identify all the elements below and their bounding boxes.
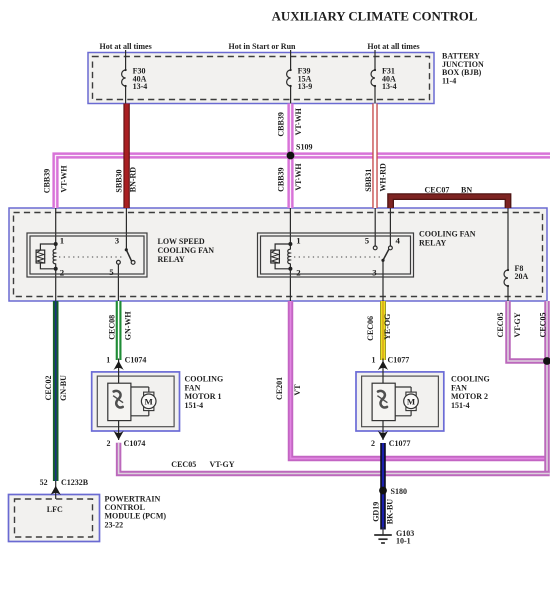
svg-text:2: 2 xyxy=(107,439,111,448)
svg-text:WH-RD: WH-RD xyxy=(379,163,388,192)
svg-text:5: 5 xyxy=(109,267,114,277)
svg-text:Hot at all times: Hot at all times xyxy=(367,42,419,51)
svg-text:AUXILIARY CLIMATE CONTROL: AUXILIARY CLIMATE CONTROL xyxy=(272,10,478,24)
svg-text:CEC08: CEC08 xyxy=(108,315,117,340)
svg-text:YE-OG: YE-OG xyxy=(383,314,392,340)
svg-text:CEC05: CEC05 xyxy=(538,313,547,338)
svg-text:CBB39: CBB39 xyxy=(277,112,286,136)
svg-text:4: 4 xyxy=(395,235,400,245)
svg-text:COOLING FAN: COOLING FAN xyxy=(419,230,476,239)
svg-text:COOLING: COOLING xyxy=(185,374,224,383)
svg-text:151-4: 151-4 xyxy=(185,401,204,410)
svg-text:FAN: FAN xyxy=(185,383,201,392)
svg-text:SBB31: SBB31 xyxy=(364,169,373,192)
svg-text:CONTROL: CONTROL xyxy=(105,503,145,512)
svg-text:151-4: 151-4 xyxy=(451,401,470,410)
svg-text:RELAY: RELAY xyxy=(419,239,446,248)
svg-text:Hot at all times: Hot at all times xyxy=(99,42,151,51)
svg-text:1: 1 xyxy=(372,356,376,365)
svg-text:LOW SPEED: LOW SPEED xyxy=(158,237,205,246)
svg-text:M: M xyxy=(407,397,416,407)
svg-text:VT-WH: VT-WH xyxy=(294,107,303,135)
svg-text:RELAY: RELAY xyxy=(158,255,185,264)
svg-text:10-1: 10-1 xyxy=(396,537,411,546)
svg-text:2: 2 xyxy=(296,268,301,278)
svg-text:GN-BU: GN-BU xyxy=(59,375,68,401)
svg-text:CEC07: CEC07 xyxy=(425,185,450,194)
svg-text:GD19: GD19 xyxy=(371,502,380,522)
svg-text:CE201: CE201 xyxy=(275,377,284,400)
svg-text:23-22: 23-22 xyxy=(105,520,124,529)
svg-text:13-9: 13-9 xyxy=(298,82,313,91)
svg-text:C1232B: C1232B xyxy=(61,478,89,487)
svg-text:52: 52 xyxy=(40,478,48,487)
svg-text:LFC: LFC xyxy=(47,505,63,514)
svg-text:CEC06: CEC06 xyxy=(366,316,375,341)
svg-text:3: 3 xyxy=(115,235,120,245)
svg-text:MOTOR 1: MOTOR 1 xyxy=(185,392,222,401)
svg-text:MOTOR 2: MOTOR 2 xyxy=(451,392,488,401)
svg-text:S180: S180 xyxy=(391,487,407,496)
svg-text:C1077: C1077 xyxy=(389,439,411,448)
svg-text:COOLING: COOLING xyxy=(451,374,490,383)
svg-text:VT: VT xyxy=(293,384,302,396)
svg-text:MODULE (PCM): MODULE (PCM) xyxy=(105,512,167,521)
svg-text:2: 2 xyxy=(371,439,375,448)
svg-text:VT-GY: VT-GY xyxy=(513,312,522,337)
svg-text:GN-WH: GN-WH xyxy=(124,311,133,341)
svg-text:POWERTRAIN: POWERTRAIN xyxy=(105,494,161,503)
svg-text:CBB39: CBB39 xyxy=(277,167,286,191)
svg-text:CEC02: CEC02 xyxy=(44,376,53,401)
svg-text:5: 5 xyxy=(365,235,370,245)
svg-text:C1074: C1074 xyxy=(124,439,146,448)
svg-text:VT-WH: VT-WH xyxy=(60,165,69,193)
svg-text:VT-WH: VT-WH xyxy=(294,163,303,191)
svg-text:20A: 20A xyxy=(515,272,529,281)
svg-text:Hot in Start or Run: Hot in Start or Run xyxy=(229,42,297,51)
svg-text:BN: BN xyxy=(461,185,472,194)
svg-text:CEC05: CEC05 xyxy=(496,313,505,338)
svg-text:BN-RD: BN-RD xyxy=(128,167,137,193)
svg-text:VT-GY: VT-GY xyxy=(210,460,235,469)
svg-text:FAN: FAN xyxy=(451,383,467,392)
svg-text:2: 2 xyxy=(60,268,65,278)
svg-text:3: 3 xyxy=(372,268,377,278)
svg-text:COOLING FAN: COOLING FAN xyxy=(158,246,215,255)
svg-text:1: 1 xyxy=(296,235,300,245)
svg-text:M: M xyxy=(145,397,154,407)
svg-text:S109: S109 xyxy=(296,143,312,152)
svg-text:13-4: 13-4 xyxy=(382,82,397,91)
svg-text:BK-BU: BK-BU xyxy=(386,499,395,525)
svg-text:11-4: 11-4 xyxy=(442,77,456,86)
svg-text:SBB30: SBB30 xyxy=(115,169,124,192)
svg-text:CEC05: CEC05 xyxy=(171,460,196,469)
svg-text:1: 1 xyxy=(60,235,64,245)
svg-text:1: 1 xyxy=(106,356,110,365)
svg-text:C1074: C1074 xyxy=(125,356,147,365)
svg-text:C1077: C1077 xyxy=(388,356,410,365)
svg-text:13-4: 13-4 xyxy=(133,82,148,91)
svg-text:CBB39: CBB39 xyxy=(43,169,52,193)
